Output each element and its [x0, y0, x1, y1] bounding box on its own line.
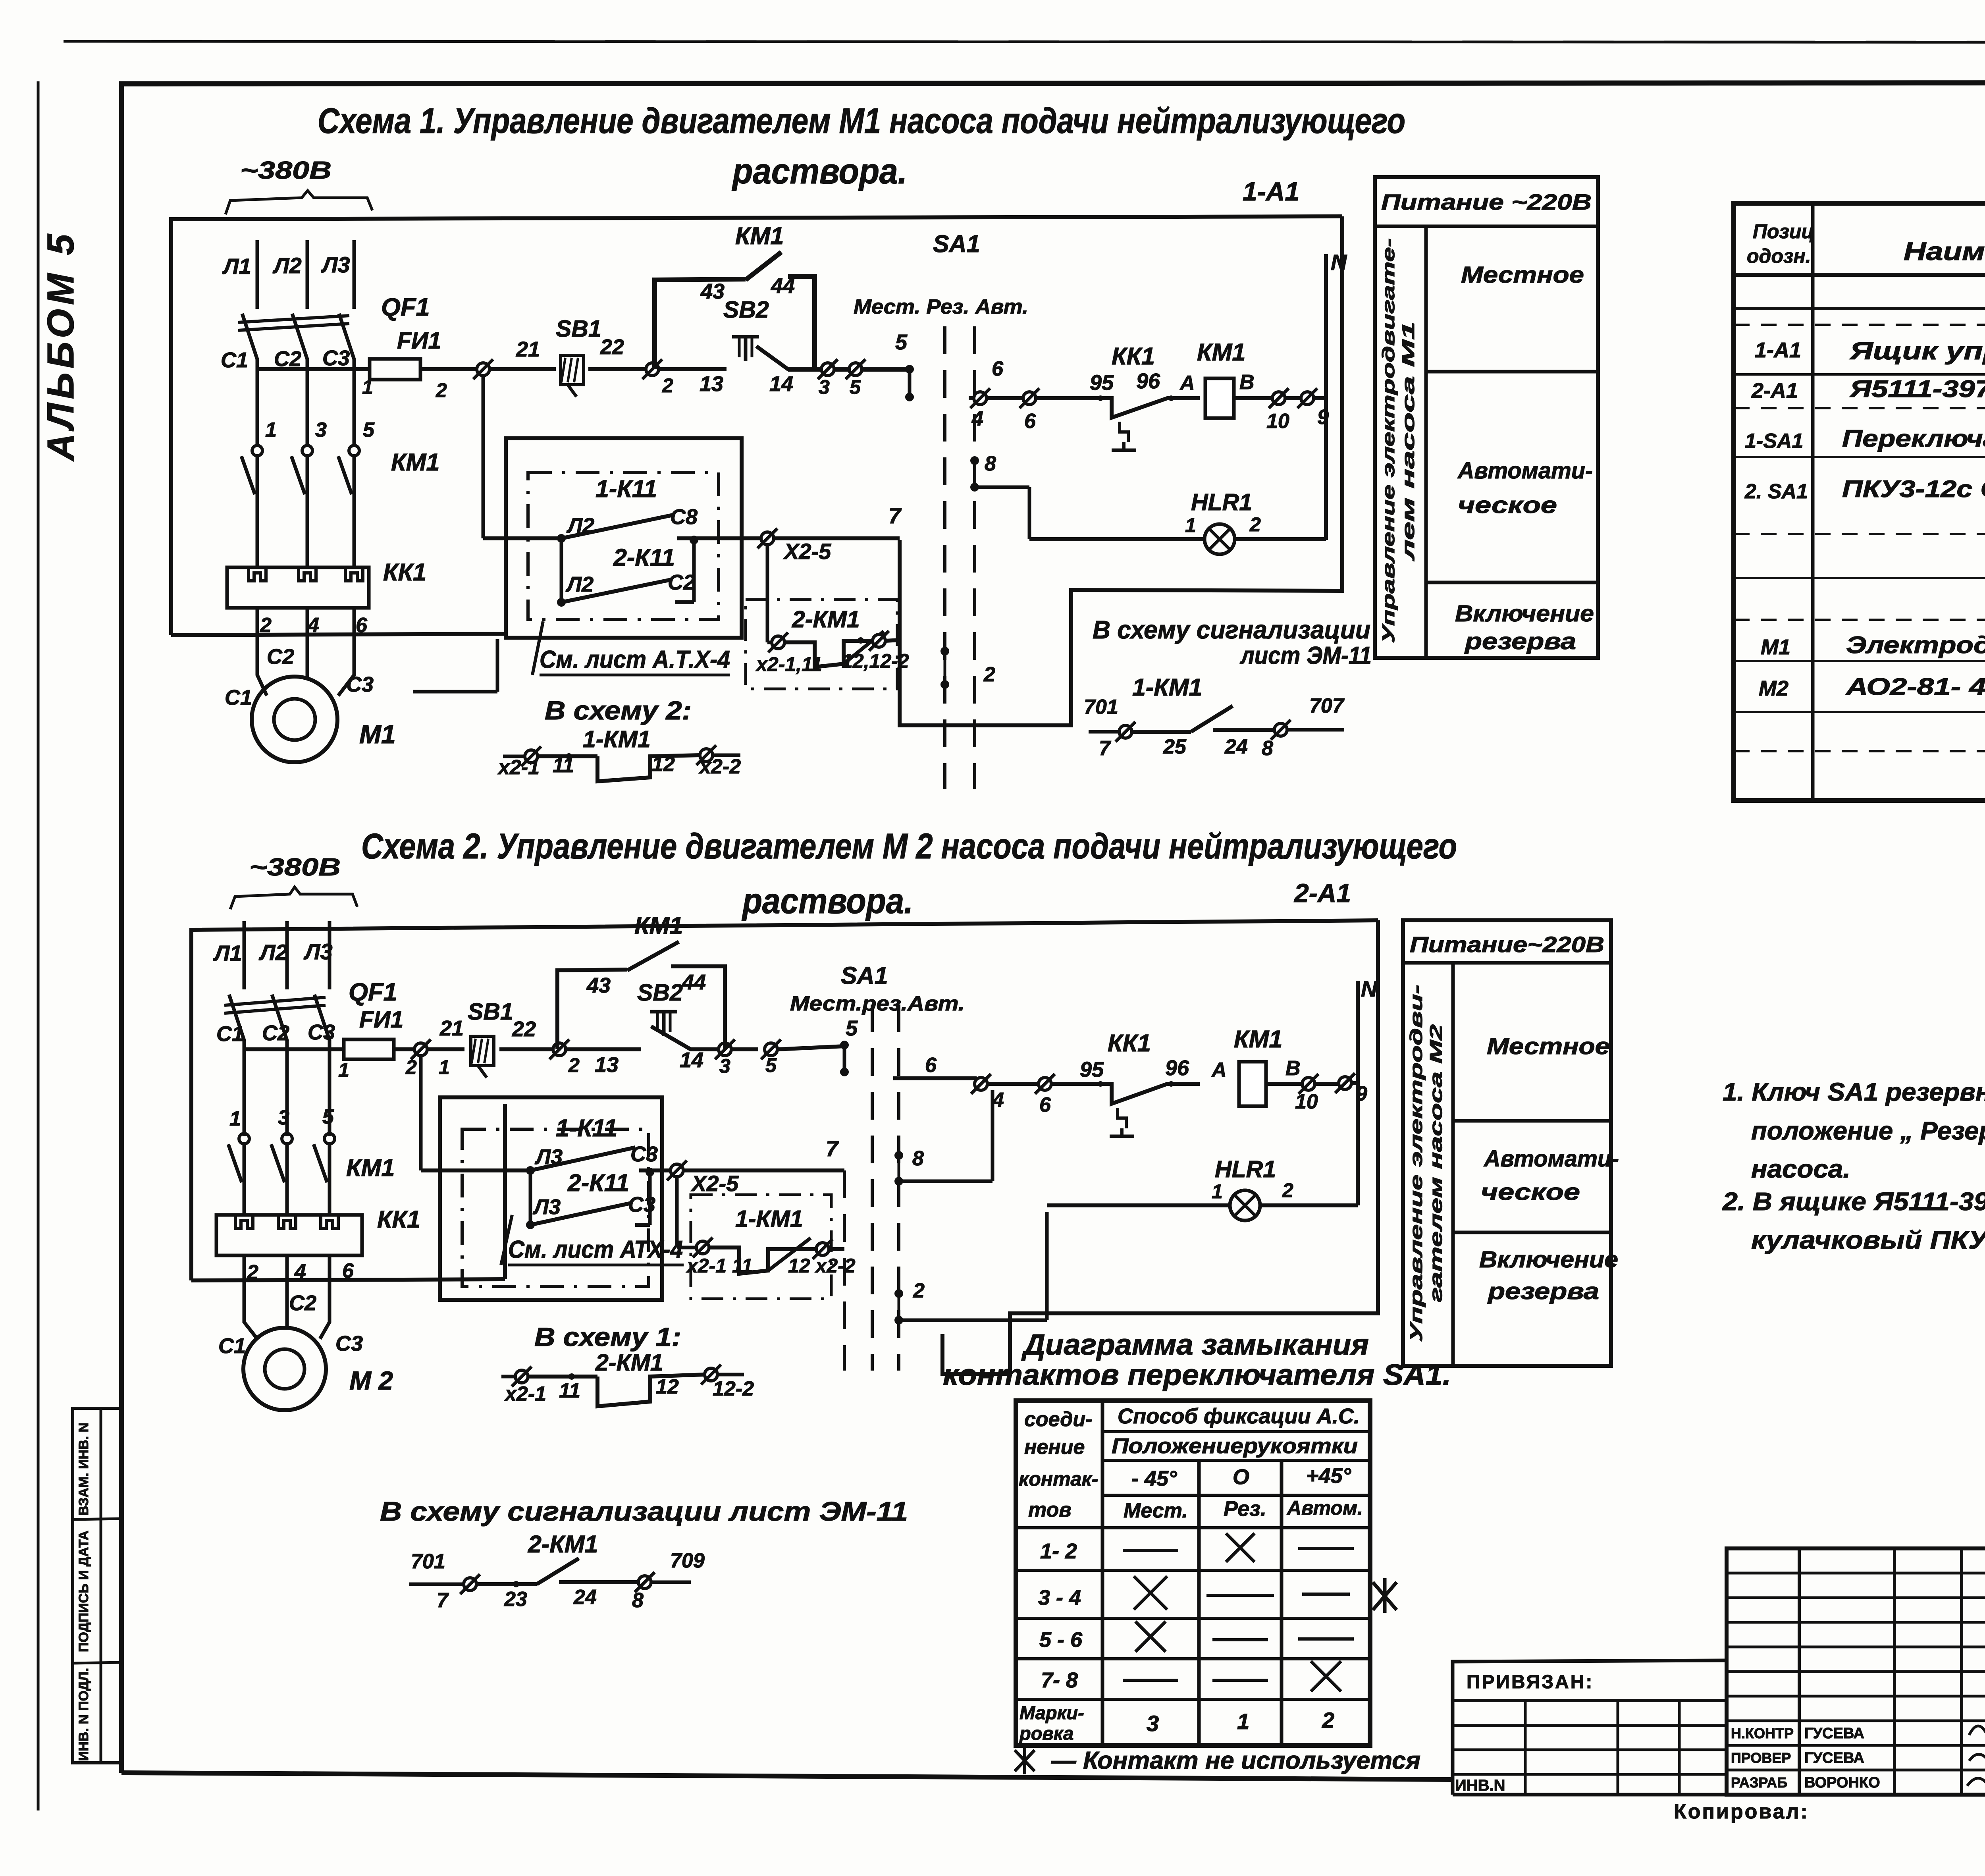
svg-text:Х2-5: Х2-5 — [783, 539, 831, 564]
svg-text:SВ2: SВ2 — [637, 979, 683, 1006]
label C3 motor sch2 — [335, 1332, 363, 1355]
breaker QF1 poles — [238, 314, 354, 359]
label 5 above sch1 — [895, 330, 908, 354]
label 6b sch2 — [1039, 1093, 1051, 1116]
svg-text:10: 10 — [1266, 410, 1289, 433]
label pole 1 sch1 — [265, 418, 277, 442]
label 4 sch1 — [307, 614, 319, 637]
phase line L1 sch1 — [256, 240, 259, 445]
svg-text:5: 5 — [850, 376, 861, 398]
svg-text:Копировал:: Копировал: — [1674, 1800, 1809, 1823]
svg-text:1: 1 — [229, 1107, 241, 1130]
note to schema2 — [545, 696, 692, 725]
label C3 k11 sch2 — [630, 1142, 658, 1166]
svg-text:одозн.: одозн. — [1747, 245, 1811, 267]
svg-text:Х2-5: Х2-5 — [690, 1171, 739, 1196]
label L3 sch2 — [303, 939, 333, 964]
label A sch2 — [1211, 1059, 1227, 1082]
label 2 sa1 sch1 — [983, 663, 995, 686]
label 44 sch1 — [771, 274, 795, 298]
wire 7 sch1 — [774, 536, 900, 540]
label 4 sch2 — [992, 1089, 1004, 1112]
junction 9 sch1 — [1297, 388, 1326, 408]
note 2 line 2 — [1751, 1226, 1985, 1254]
titleblock names — [1731, 1725, 1880, 1791]
label M1 — [359, 719, 396, 749]
label 1a sch2 — [439, 1056, 450, 1078]
label HLR1 sch1 — [1191, 489, 1252, 515]
svg-text:А: А — [1179, 372, 1195, 395]
thermal release mark sch2 — [1110, 1108, 1134, 1136]
label x2-1 low2 — [504, 1382, 546, 1406]
label 13 sch2 — [595, 1053, 619, 1077]
label 1-KM1 sch2 — [735, 1206, 803, 1232]
svg-text:1: 1 — [265, 418, 277, 442]
label 25 sch1 — [1163, 735, 1187, 758]
eqt header pozic — [1747, 220, 1814, 267]
svg-text:М 2: М 2 — [349, 1366, 393, 1395]
junction sch1 n5 — [846, 359, 910, 379]
label 12 12-2 sch1 — [842, 650, 909, 672]
see sheet note sch2 — [501, 1215, 684, 1265]
label L2 sch2 — [258, 940, 288, 965]
svg-text:1-КМ1: 1-КМ1 — [735, 1206, 803, 1232]
phase line L1 sch2 — [243, 921, 246, 1136]
wire drop to K11 sch2 — [421, 1056, 530, 1170]
svg-text:2: 2 — [1249, 513, 1261, 536]
svg-text:1-А1: 1-А1 — [1243, 177, 1299, 206]
svg-text:8: 8 — [985, 452, 996, 475]
svg-text:Л3: Л3 — [532, 1195, 561, 1219]
label SA1 sch1 — [933, 230, 980, 257]
titleblock signatures — [1967, 1724, 1985, 1786]
svg-text:1-К11: 1-К11 — [595, 475, 657, 502]
svg-text:КК1: КК1 — [1112, 343, 1155, 370]
line N sch1 — [1324, 254, 1328, 540]
label N sch1 — [1331, 250, 1347, 275]
schematic 1 title line 2 — [732, 152, 907, 191]
label 23 — [504, 1588, 527, 1611]
label pole 5 sch1 — [363, 418, 375, 442]
junction sch1 n3 — [818, 359, 849, 379]
border top thin line — [64, 41, 1985, 42]
label 1-A1 — [1243, 177, 1299, 206]
label 709 — [670, 1549, 705, 1572]
label C1 sch1 — [221, 348, 248, 372]
label 1-K11 — [595, 475, 657, 502]
svg-text:N: N — [1361, 976, 1378, 1001]
label 7 sch1 — [888, 503, 902, 528]
svg-text:ПКУ3-12с Схема 2024 У3: ПКУ3-12с Схема 2024 У3 — [1842, 476, 1985, 502]
motor feeders sch2 — [244, 1255, 330, 1339]
svg-text:2-КМ1: 2-КМ1 — [595, 1350, 663, 1376]
svg-text:12: 12 — [656, 1375, 679, 1398]
label 96 sch2 — [1165, 1056, 1189, 1080]
enclosure 2-A1 outline — [191, 920, 1378, 1374]
junction 10 sch2 — [1299, 1074, 1339, 1094]
thermal release mark sch1 — [1112, 422, 1136, 450]
supply rotated line2 sch2 — [1426, 1024, 1446, 1302]
label 8b sch1 — [1262, 737, 1273, 760]
svg-text:21: 21 — [439, 1016, 464, 1040]
label 96 sch1 — [1136, 369, 1160, 393]
lamp HLR1 sch1 — [1204, 524, 1235, 554]
switch SA1 dashed line a sch1 — [943, 326, 946, 789]
closure row 1-2 — [1040, 1533, 1354, 1563]
label SB2 sch1 — [723, 297, 769, 323]
label 2 sch2 — [247, 1261, 258, 1284]
svg-text:соеди-: соеди- — [1024, 1408, 1092, 1431]
svg-text:- 45°: - 45° — [1131, 1467, 1177, 1490]
svg-text:QF1: QF1 — [381, 293, 430, 321]
svg-text:6: 6 — [992, 357, 1004, 380]
note 2 line 1 — [1722, 1187, 1985, 1216]
svg-text:С3: С3 — [346, 673, 374, 696]
svg-text:ГУСЕВА: ГУСЕВА — [1804, 1725, 1864, 1742]
supply cell mestnoe sch1 — [1461, 262, 1584, 288]
svg-text:1: 1 — [1237, 1709, 1249, 1734]
label 22 sch1 — [600, 335, 624, 359]
label QF1 — [381, 293, 430, 321]
svg-text:х2-1: х2-1 — [504, 1382, 546, 1406]
inv n label — [1455, 1777, 1505, 1794]
svg-text:С1: С1 — [216, 1022, 244, 1046]
label 9 sch2 — [1356, 1082, 1367, 1105]
label 3 sch1 — [819, 376, 830, 398]
wire 22 sch1 — [588, 367, 646, 371]
svg-text:7: 7 — [826, 1136, 839, 1161]
contact 1-K11 sch2 — [526, 1147, 671, 1175]
lamp HLR1 sch2 — [1230, 1190, 1260, 1220]
contact 2-KM1 sig — [409, 1558, 691, 1594]
svg-text:8: 8 — [632, 1589, 644, 1612]
wire 8 branch sch1 — [975, 487, 1029, 539]
switch SA1 dashed a sch2 — [871, 1005, 874, 1371]
svg-text:5: 5 — [363, 418, 375, 442]
note 1 line 1 — [1723, 1078, 1985, 1106]
label ~380V sch1 — [240, 157, 331, 184]
svg-text:Л3: Л3 — [303, 939, 333, 964]
label pole1 sch2 — [229, 1107, 241, 1130]
label HLR1 sch2 — [1215, 1156, 1276, 1182]
svg-text:2: 2 — [405, 1056, 417, 1078]
svg-text:12 х2-2: 12 х2-2 — [788, 1255, 856, 1277]
svg-text:1: 1 — [1212, 1180, 1223, 1203]
svg-text:FИ1: FИ1 — [397, 328, 441, 354]
label pole 3 sch1 — [315, 418, 327, 442]
supply title sch2 — [1410, 932, 1604, 957]
border left thin line — [37, 81, 40, 1810]
svg-text:5: 5 — [846, 1016, 858, 1040]
svg-text:Л2: Л2 — [258, 940, 288, 965]
junction 9 sch2 — [1335, 1073, 1358, 1093]
phase line L3 sch1 — [353, 240, 356, 445]
svg-text:21: 21 — [516, 337, 540, 361]
svg-text:ровка: ровка — [1019, 1723, 1073, 1744]
svg-text:С3: С3 — [628, 1193, 655, 1217]
contact SB2 break sch1 — [756, 346, 821, 369]
svg-text:Схема 1. Управление двигателем: Схема 1. Управление двигателем М1 насоса… — [318, 101, 1405, 141]
svg-text:1: 1 — [1185, 514, 1196, 536]
label 4 sch1 — [971, 407, 983, 430]
svg-text:С3: С3 — [630, 1142, 658, 1166]
svg-text:КМ1: КМ1 — [735, 222, 784, 249]
label 2-K11 sch2 — [567, 1169, 629, 1196]
label 8 sch1 — [985, 452, 996, 475]
coil KM1 sch2 — [1239, 1062, 1302, 1106]
note 1 line 3 — [1751, 1155, 1850, 1183]
closure hdr modes — [1124, 1497, 1363, 1522]
svg-text:ПРИВЯЗАН:: ПРИВЯЗАН: — [1467, 1672, 1594, 1693]
equipment table row lines — [1734, 308, 1985, 751]
label fuse1 sch2 — [338, 1059, 349, 1081]
label SB2 sch2 — [637, 979, 683, 1006]
svg-text:96: 96 — [1136, 369, 1160, 393]
closure row 7-8 — [1041, 1661, 1341, 1692]
svg-text:5: 5 — [765, 1054, 777, 1076]
label C8 k11 sch1 — [670, 505, 698, 529]
svg-text:5 - 6: 5 - 6 — [1039, 1628, 1083, 1652]
label 43 sch2 — [586, 974, 611, 997]
label lamp1 sch1 — [1185, 514, 1196, 536]
svg-text:насоса.: насоса. — [1751, 1155, 1850, 1183]
svg-text:С8: С8 — [670, 505, 698, 529]
svg-text:М1: М1 — [1761, 635, 1790, 659]
label L1 sch2 — [213, 941, 242, 966]
line N sch2 — [1356, 981, 1360, 1205]
svg-text:РАЗРАБ: РАЗРАБ — [1731, 1774, 1787, 1791]
label KK1 sch1 — [383, 559, 426, 586]
label SA1 positions sch2 — [790, 992, 965, 1015]
svg-text:О: О — [1233, 1465, 1249, 1489]
strip text INV N PODL — [76, 1668, 91, 1761]
svg-text:гателем насоса М2: гателем насоса М2 — [1426, 1024, 1446, 1302]
svg-text:х2-1,11: х2-1,11 — [755, 653, 822, 675]
label 14 sch2 — [680, 1048, 703, 1072]
label 8c — [632, 1589, 644, 1612]
label L2 k11 sch1 — [566, 514, 594, 538]
svg-text:SВ2: SВ2 — [723, 297, 769, 323]
svg-text:См. лист А.Т.Х-4: См. лист А.Т.Х-4 — [540, 646, 730, 673]
fuse FU1 sch2 — [344, 1039, 414, 1059]
label 1-KM1 mid sch1 — [1132, 674, 1202, 701]
strip text PODPIS I DATA — [76, 1531, 91, 1652]
equipment table frame — [1734, 203, 1985, 800]
label 6 above sch1 — [992, 357, 1004, 380]
svg-text:Автомати-: Автомати- — [1483, 1146, 1619, 1172]
power box right edge sch2 — [191, 1104, 505, 1280]
label C3 motor sch1 — [346, 673, 374, 696]
label KK1 sch2b — [1108, 1030, 1151, 1057]
note to schema1 — [534, 1322, 681, 1352]
svg-text:Местное: Местное — [1487, 1033, 1610, 1059]
label KM1 hold sch1 — [735, 222, 784, 249]
eqt row 2-SA1 — [1744, 464, 1985, 531]
eqt row 1-A1 — [1755, 337, 1985, 365]
breaker QF1 poles sch2 — [224, 995, 330, 1040]
svg-text:С1: С1 — [225, 686, 252, 710]
svg-text:1-А1: 1-А1 — [1755, 338, 1801, 362]
label L3 2k11 sch2 — [532, 1195, 561, 1219]
svg-text:7- 8: 7- 8 — [1041, 1668, 1078, 1692]
label B sch1 — [1239, 371, 1255, 394]
control wire sch2 segA — [244, 1047, 344, 1051]
svg-text:КМ1: КМ1 — [634, 912, 683, 939]
contact 1-KM1 low sch1 — [503, 745, 740, 781]
svg-text:SА1: SА1 — [841, 962, 888, 989]
label 5 sch2 — [765, 1054, 777, 1076]
svg-text:Включение: Включение — [1455, 601, 1594, 627]
KM1 holding branch sch1 — [655, 252, 815, 369]
label 44 sch2 — [682, 970, 706, 994]
svg-text:1-К11: 1-К11 — [556, 1114, 617, 1141]
privyazan block — [1453, 1660, 1727, 1795]
svg-text:КК1: КК1 — [383, 559, 426, 586]
note to signal sch2 — [380, 1496, 908, 1527]
label 43 sch1 — [700, 280, 725, 303]
label SB1 sch1 — [556, 316, 601, 342]
kopiroval — [1674, 1800, 1809, 1823]
label 95 sch1 — [1090, 371, 1114, 395]
supply rotated line1 sch2 — [1407, 985, 1426, 1342]
junction 6 sch2 — [1035, 1074, 1055, 1094]
label C1 motor sch2 — [218, 1334, 246, 1358]
SA1 contact dots b sch1 — [970, 456, 979, 492]
note to signal sch1 — [1093, 615, 1372, 669]
label L2 sch1 — [272, 253, 302, 278]
svg-text:FИ1: FИ1 — [359, 1006, 403, 1033]
contact KK1 NC sch2 — [1098, 1081, 1200, 1104]
svg-text:раствора.: раствора. — [742, 881, 913, 921]
power box bottom-right edge sch1 — [171, 634, 505, 692]
label 8 sch2 — [912, 1147, 924, 1170]
eqt row M2 — [1759, 673, 1985, 700]
svg-text:М1: М1 — [359, 719, 396, 749]
contact 1-KM1 mid sch1 — [1089, 706, 1344, 742]
label 2-A1 — [1293, 878, 1351, 908]
svg-text:С1: С1 — [218, 1334, 246, 1358]
svg-text:Л2: Л2 — [272, 253, 302, 278]
K11 outer box sch1 — [506, 438, 742, 638]
node 5 dot sch1 — [905, 365, 914, 401]
label L3 sch1 — [321, 252, 350, 277]
svg-text:25: 25 — [1163, 735, 1187, 758]
contact 1-K11 sch1 — [557, 515, 767, 543]
svg-text:С2: С2 — [267, 645, 294, 669]
junction sch1 n21 — [473, 359, 556, 379]
schematic 2 title line 2 — [742, 881, 913, 921]
label 22 sch2 — [512, 1017, 536, 1041]
svg-text:13: 13 — [700, 372, 723, 396]
svg-text:КК1: КК1 — [377, 1206, 420, 1233]
eqt row M1 — [1761, 632, 1985, 659]
svg-text:1: 1 — [439, 1056, 450, 1078]
label 6 sch2 — [342, 1259, 354, 1282]
label SA1 positions sch1 — [854, 295, 1028, 318]
svg-text:701: 701 — [411, 1550, 445, 1573]
svg-text:23: 23 — [504, 1588, 527, 1611]
svg-text:контак-: контак- — [1019, 1468, 1098, 1490]
svg-text:2: 2 — [1282, 1179, 1293, 1201]
label 95 sch2 — [1080, 1058, 1104, 1082]
label SA1 sch2 — [841, 962, 888, 989]
svg-text:2-К11: 2-К11 — [613, 544, 675, 571]
contact 2-K11 sch1 — [557, 536, 698, 607]
pushbutton SB2 sch1 — [732, 337, 759, 361]
svg-text:12-2: 12-2 — [713, 1377, 754, 1400]
label KM1 coil sch2 — [1234, 1026, 1282, 1053]
label x2-1 low sch1 — [497, 756, 540, 779]
svg-text:Переключатель кулачковый: Переключатель кулачковый — [1842, 425, 1985, 452]
svg-text:х2-1 11: х2-1 11 — [686, 1255, 753, 1277]
svg-text:ИНВ.N: ИНВ.N — [1455, 1777, 1505, 1794]
svg-text:6: 6 — [1039, 1093, 1051, 1116]
box 1-KM1 sch2 — [691, 1195, 831, 1299]
svg-text:6: 6 — [1024, 410, 1036, 433]
label 7b sch1 — [1099, 737, 1111, 760]
svg-text:SВ1: SВ1 — [468, 999, 513, 1025]
svg-text:2: 2 — [913, 1279, 925, 1302]
label 12 low2 — [656, 1375, 679, 1398]
closure col1 header — [1019, 1408, 1098, 1521]
node 5 dot sch2 — [840, 1041, 849, 1076]
label 707 sch1 — [1309, 694, 1345, 717]
label 13 sch1 — [700, 372, 723, 396]
label B sch2 — [1285, 1057, 1301, 1080]
svg-text:43: 43 — [700, 280, 725, 303]
svg-text:Ящик управления: Ящик управления — [1849, 337, 1985, 365]
closure hdr sposob — [1118, 1404, 1360, 1428]
closure row 3-4 — [1038, 1576, 1350, 1610]
svg-text:лем насоса М1: лем насоса М1 — [1399, 322, 1418, 561]
motor feeder wires sch1 — [257, 608, 354, 696]
label L2 2k11 sch1 — [565, 573, 594, 596]
svg-text:14: 14 — [680, 1048, 703, 1072]
junction n21 sch2 — [411, 1039, 464, 1059]
svg-text:SВ1: SВ1 — [556, 316, 601, 342]
fuse FU1 sch1 — [370, 359, 478, 380]
junction 6 sch1 — [1019, 388, 1039, 408]
see sheet note sch1 — [532, 621, 730, 675]
svg-text:ческое: ческое — [1458, 492, 1557, 518]
svg-text:7: 7 — [888, 503, 902, 528]
svg-text:Л1: Л1 — [213, 941, 242, 966]
svg-text:2: 2 — [662, 374, 673, 397]
label 10 sch2 — [1295, 1090, 1318, 1113]
svg-text:95: 95 — [1080, 1058, 1104, 1082]
label 1-KM1 low sch1 — [583, 726, 651, 752]
label C3 sch1 — [322, 346, 350, 370]
contact SB2 break sch2 — [651, 1026, 719, 1049]
label 2-KM1 low — [595, 1350, 663, 1376]
eqt row 1-SA1 — [1745, 425, 1985, 453]
svg-text:HLR1: HLR1 — [1191, 489, 1252, 515]
junction n3 sch2 — [715, 1039, 758, 1059]
enclosure 1-A1 outline — [171, 216, 1342, 725]
label C1 sch2 — [216, 1022, 244, 1046]
svg-text:HLR1: HLR1 — [1215, 1156, 1276, 1182]
thermal relay KK1 sch1 — [227, 567, 369, 608]
closure row marking — [1019, 1702, 1334, 1744]
svg-text:95: 95 — [1090, 371, 1114, 395]
svg-text:х2-2: х2-2 — [698, 755, 741, 778]
privyazan label — [1467, 1672, 1594, 1693]
thermal relay KK1 sch2 — [216, 1215, 362, 1255]
left strip box — [73, 1408, 121, 1763]
closure diagram title — [943, 1328, 1451, 1391]
svg-text:Питание ~220В: Питание ~220В — [1381, 189, 1592, 214]
label pole5 sch2 — [322, 1105, 334, 1128]
